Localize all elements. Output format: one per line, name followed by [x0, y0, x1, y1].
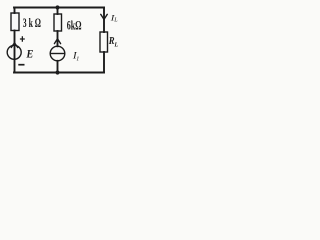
- svg-text:1: 1: [76, 56, 79, 62]
- svg-text:6kΩ: 6kΩ: [67, 18, 82, 32]
- svg-text:E: E: [25, 49, 33, 61]
- svg-text:3 k Ω: 3 k Ω: [23, 16, 41, 30]
- svg-text:L: L: [113, 18, 118, 24]
- svg-text:L: L: [113, 42, 118, 49]
